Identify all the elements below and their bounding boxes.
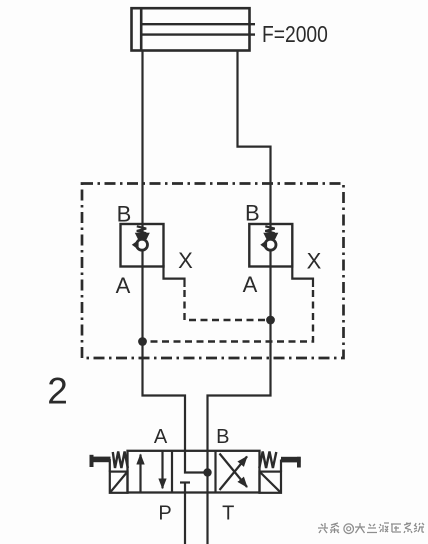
- svg-text:B: B: [245, 201, 260, 226]
- svg-text:B: B: [117, 202, 132, 227]
- svg-text:A: A: [154, 426, 168, 448]
- svg-text:A: A: [116, 273, 131, 298]
- svg-text:2: 2: [47, 371, 68, 412]
- svg-text:F=2000: F=2000: [262, 21, 328, 47]
- svg-text:X: X: [307, 249, 322, 274]
- svg-text:B: B: [216, 426, 229, 448]
- svg-text:X: X: [178, 248, 193, 273]
- svg-text:P: P: [158, 503, 171, 525]
- svg-text:T: T: [222, 503, 234, 525]
- svg-text:A: A: [243, 272, 258, 297]
